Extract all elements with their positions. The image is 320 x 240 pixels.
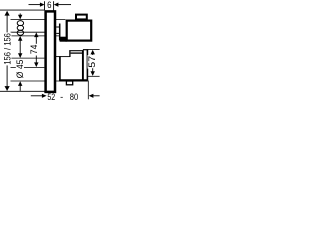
svg-text:Ø 45: Ø 45	[15, 60, 25, 79]
dimension 74 label	[29, 44, 39, 55]
svg-text:156 / 156: 156 / 156	[3, 33, 13, 65]
dimension 57 bottom extension line	[88, 75, 100, 77]
dimension diameter45 bottom arrow	[18, 81, 22, 86]
upper handle top step	[76, 15, 87, 20]
spring dimension bottom arrow	[18, 36, 22, 41]
dimension 57 bottom arrow	[92, 68, 94, 72]
dimension 52-80 left arrow	[31, 95, 43, 97]
lower handle groove line	[71, 52, 83, 54]
dimension 74 top extension line	[11, 31, 57, 33]
dimension 74 top arrow	[34, 32, 38, 37]
dimension 74 bottom arrow	[35, 56, 37, 64]
lower handle bottom tab	[66, 81, 72, 85]
svg-text:80: 80	[70, 92, 78, 100]
upper handle body	[67, 21, 92, 41]
dimension 52-80 right arrow	[89, 94, 94, 98]
svg-text:57: 57	[87, 56, 97, 68]
dimension 6 left extension line	[44, 1, 46, 10]
spring top reference line	[11, 19, 66, 21]
depth extension line	[87, 81, 89, 100]
dimension 6 right extension line	[53, 1, 55, 11]
svg-text:6: 6	[47, 0, 51, 10]
lower handle bottom edge	[59, 79, 88, 81]
lower handle front plate top	[83, 49, 88, 51]
dimension diameter45 top extension line	[11, 57, 45, 59]
top edge extension line	[0, 9, 45, 11]
dimension 156/156 bottom arrow	[5, 86, 10, 91]
dimension 57 label	[87, 55, 97, 69]
lower handle shoulder line	[56, 56, 70, 58]
dimension diameter45 bottom extension line	[11, 80, 60, 82]
dimension 57 top extension line	[88, 48, 100, 50]
svg-text:74: 74	[29, 45, 39, 55]
svg-text:52: 52	[47, 92, 55, 100]
lower handle front plate face	[86, 49, 88, 80]
lower handle top edge	[69, 50, 83, 52]
dimension diameter45 top arrow	[18, 53, 22, 58]
spring dimension top arrow	[19, 13, 21, 15]
spring bottom reference line	[11, 35, 60, 37]
dimension diameter45 label	[15, 59, 25, 79]
svg-text:-: -	[60, 92, 63, 100]
spring symbol	[17, 21, 23, 36]
upper handle collar step	[59, 24, 61, 41]
dimension 156/156 line	[6, 12, 8, 91]
dimension 6 left arrow	[29, 4, 41, 6]
shared dimension shaft	[19, 40, 21, 54]
lower handle step	[69, 50, 71, 57]
dimension 156/156 top arrow	[5, 11, 10, 16]
wall section rectangle	[46, 11, 55, 92]
dimension 74 bottom extension line	[11, 66, 45, 68]
lower handle front ring edge	[82, 50, 84, 80]
upper handle neck	[56, 27, 59, 33]
bottom edge extension line	[0, 90, 45, 92]
dimension 156/156 label	[3, 32, 13, 65]
lower handle left edge	[59, 56, 61, 81]
dimension 57 top arrow	[91, 50, 95, 55]
dimension 6 right arrow	[58, 4, 71, 6]
